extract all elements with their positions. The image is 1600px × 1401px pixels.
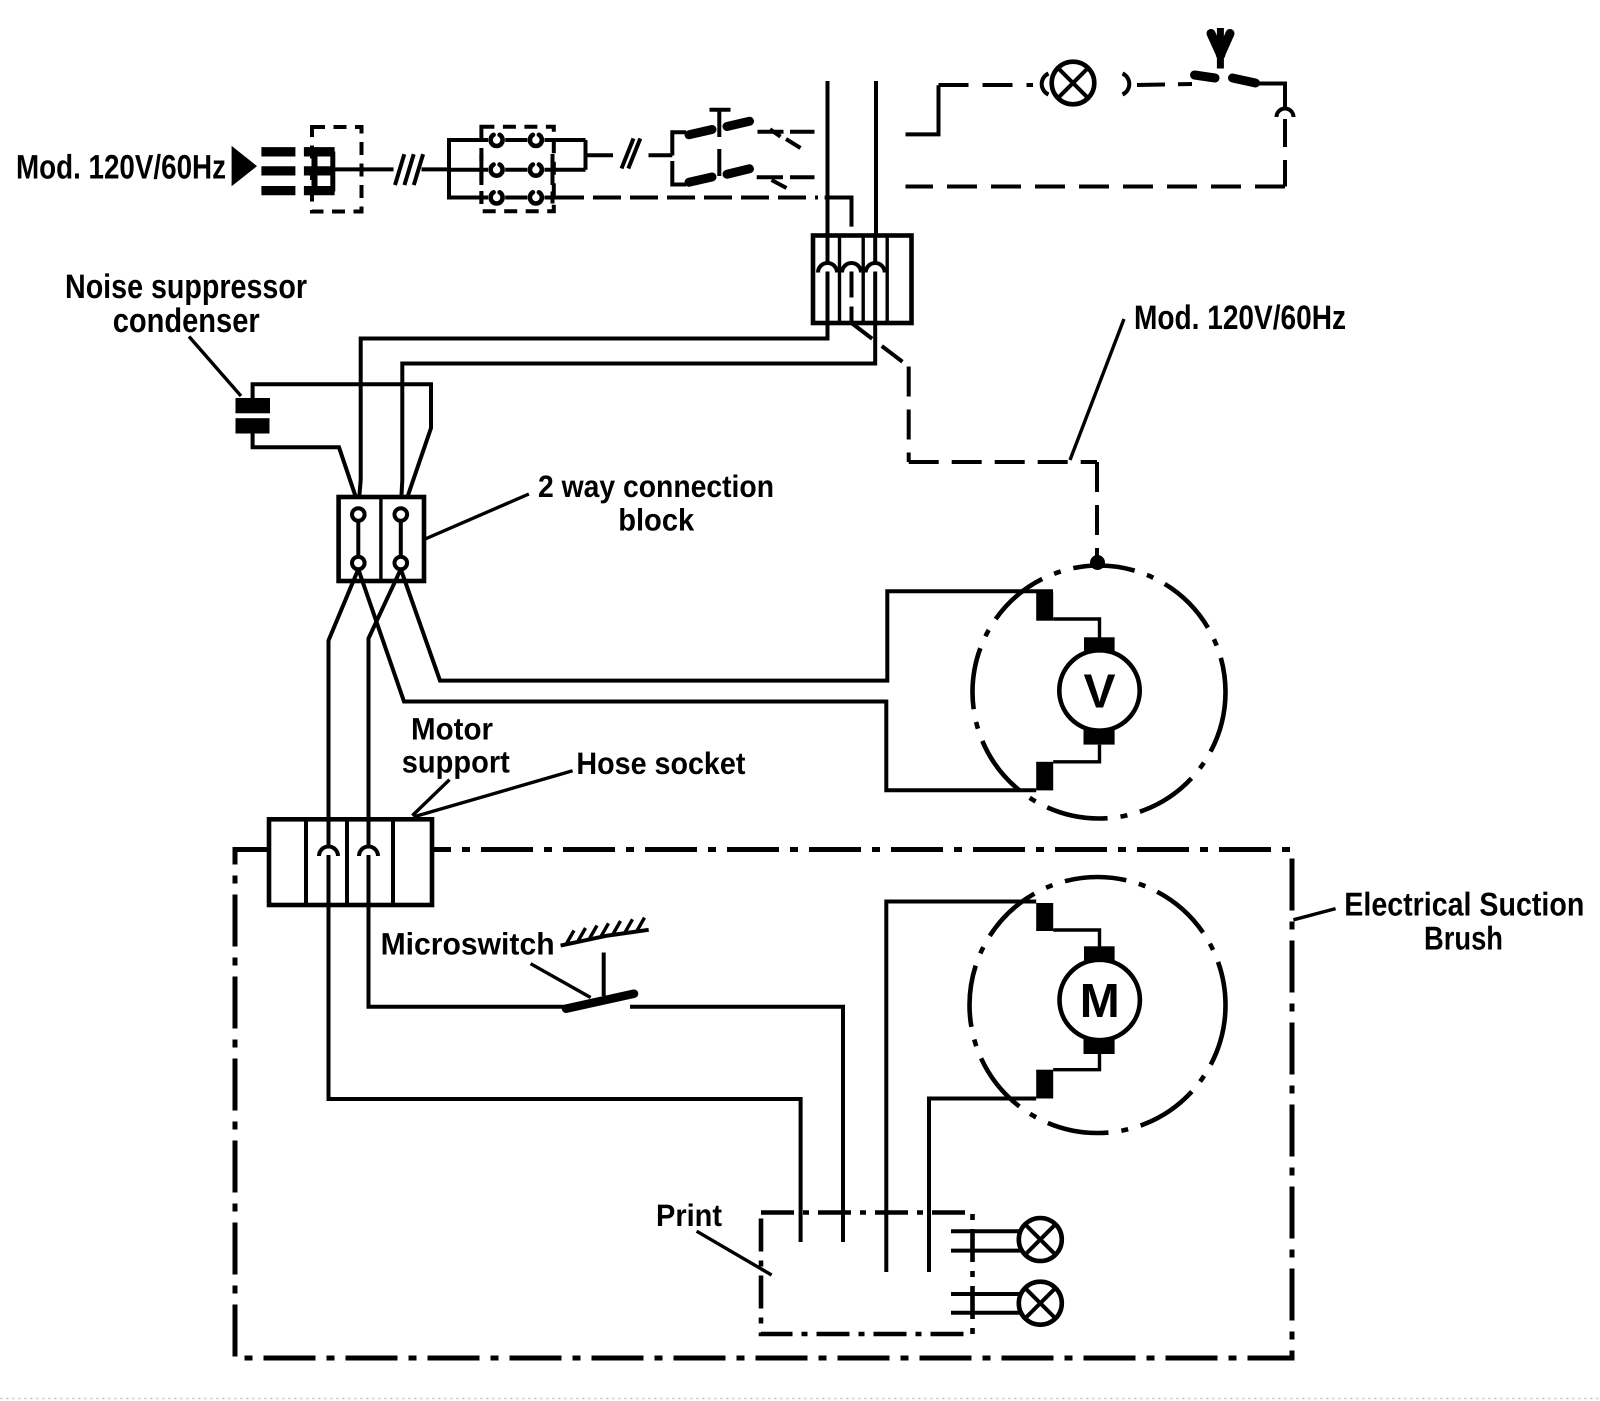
connector contact pair row 1 — [470, 135, 586, 146]
push switch S2 blade — [1195, 75, 1256, 83]
leader line hose socket — [414, 771, 573, 817]
lamp loop dashed wire to switch — [1137, 84, 1192, 85]
leader line for Mod label — [1070, 319, 1124, 460]
dashed return wire right side — [906, 119, 1286, 187]
lamp loop left terminal — [906, 85, 939, 134]
svg-text:Print: Print — [656, 1198, 722, 1233]
mains plug P1 prongs — [261, 152, 295, 191]
lamp holder contact right — [1123, 74, 1130, 95]
cable marks // — [622, 139, 641, 169]
M motor upper brush — [1084, 946, 1115, 961]
M motor upper brush link — [1053, 930, 1099, 947]
inlet pin 1 — [818, 236, 837, 324]
leader line connection block — [424, 494, 529, 540]
wire TB1 right-bottom to hose socket pin B — [369, 569, 401, 847]
switch S1 pole 1 blade — [689, 121, 750, 135]
leader line condenser — [189, 337, 241, 397]
appliance socket J1 contacts — [304, 152, 335, 192]
vacuum motor V armature — [1059, 650, 1139, 730]
pilot lamp LP1 — [1052, 62, 1095, 105]
lamp holder contact left — [1042, 74, 1049, 95]
svg-text:Mod. 120V/60Hz: Mod. 120V/60Hz — [16, 149, 226, 187]
wire S2 to hose coupling — [1258, 84, 1285, 108]
connector contact pair row 2 — [481, 154, 585, 185]
switch S1 actuator link — [710, 110, 731, 179]
print circuit board outline (dash-dot) — [761, 1213, 973, 1335]
TB1 terminal circles — [352, 508, 407, 569]
microswitch MS1 frame with hatching — [561, 918, 649, 946]
inlet pin 3 — [866, 236, 885, 324]
switch S1 pole 1 fixed contacts — [758, 129, 815, 148]
wire C1 bottom lead to terminal block — [253, 434, 359, 507]
microswitch MS1 blade — [566, 994, 634, 1009]
leader line suction brush — [1293, 909, 1335, 920]
V motor upper brush link — [1053, 619, 1099, 638]
hose socket block — [269, 819, 432, 905]
svg-text:block: block — [618, 503, 695, 538]
wire TB1 left-bottom to hose socket pin A — [329, 569, 359, 847]
wire M motor upper brush to print board — [886, 902, 1036, 1273]
leader line print — [697, 1231, 772, 1275]
M motor lower brush — [1084, 1039, 1115, 1055]
M motor lower commutator contact — [1036, 1070, 1053, 1099]
wire TB1 right-bottom to V motor upper brush — [401, 569, 1053, 680]
leader line motor support — [412, 780, 449, 816]
wire microswitch to print board — [630, 1007, 843, 1242]
main switch S1 input bridge — [672, 132, 686, 184]
brush motor M armature — [1060, 960, 1140, 1040]
noise suppressor condenser C1 plates — [236, 398, 271, 434]
push switch S2 arrow actuator — [1211, 28, 1230, 69]
electrical suction brush enclosure (dash-dot box) — [235, 850, 1292, 1359]
wire hose pin A to print board — [329, 905, 801, 1242]
wire from socket to cable — [335, 167, 394, 171]
lamp loop dashed wire top — [939, 83, 1034, 87]
wire TB1 left-bottom to V motor lower brush — [358, 569, 1036, 790]
wire inlet pin1 to terminal block — [358, 323, 827, 508]
page margin rule (faint) — [0, 1398, 1600, 1400]
headlamp lamp 1 — [1019, 1218, 1062, 1261]
svg-text:Hose socket: Hose socket — [576, 746, 745, 781]
hose socket pin B — [359, 819, 378, 905]
svg-text:V: V — [1083, 666, 1115, 719]
headlamp lamp 2 — [1019, 1282, 1062, 1325]
svg-text:2 way connection: 2 way connection — [538, 469, 774, 504]
headlamp lamp 2 leads — [951, 1294, 1022, 1313]
switch S1 pole 2 fixed contacts — [757, 177, 815, 188]
svg-text:support: support — [402, 745, 510, 780]
V motor lower commutator contact — [1036, 762, 1053, 791]
wire M motor lower brush to print board — [929, 1099, 1036, 1273]
svg-text:condenser: condenser — [113, 302, 260, 340]
wire cable to connector block — [422, 167, 450, 171]
svg-text:Motor: Motor — [411, 712, 493, 747]
wire L2 down to inlet block — [874, 81, 878, 236]
V motor upper commutator contact — [1036, 593, 1053, 621]
V motor stator circle (dashed) — [973, 566, 1226, 819]
connector housing outline (dashed) — [312, 127, 362, 212]
M motor lower brush link — [1053, 1054, 1099, 1070]
wire hose pin B to microswitch — [369, 905, 567, 1007]
M motor upper commutator contact — [1036, 903, 1053, 931]
inlet pin 2 (dashed circuit) — [842, 263, 861, 323]
svg-text:Noise suppressor: Noise suppressor — [65, 268, 307, 306]
3-way cable connector housing (dashed) — [481, 127, 553, 212]
dashed return wire from connector row 3 — [556, 198, 852, 264]
wire L1 down to inlet block — [826, 81, 830, 236]
V motor lower brush link — [1053, 745, 1099, 762]
2 way connection block TB1 — [339, 497, 424, 581]
leader line microswitch — [531, 964, 591, 998]
svg-text:Electrical Suction: Electrical Suction — [1344, 886, 1584, 923]
svg-text:Microswitch: Microswitch — [381, 927, 555, 962]
M motor stator circle (dashed) — [970, 877, 1226, 1133]
svg-text:M: M — [1080, 975, 1120, 1028]
connector right bridge — [586, 140, 614, 170]
hose coupling contact — [1277, 109, 1294, 118]
connector contact pair row 3 — [470, 192, 556, 204]
V motor lower brush — [1084, 729, 1115, 745]
dashed feed wire to suction brush (Mod. circuit) — [852, 323, 1098, 557]
junction dot on V motor circle — [1090, 555, 1105, 570]
hose socket pin A — [319, 819, 338, 905]
cable marks /// — [395, 154, 423, 185]
svg-text:Brush: Brush — [1424, 920, 1503, 957]
plug arrow marker — [232, 146, 257, 186]
V motor upper brush — [1084, 637, 1115, 652]
microswitch MS1 actuator — [602, 953, 606, 997]
3-way cable connector left bridge — [449, 140, 488, 198]
wire inlet pin3 to terminal block — [401, 323, 875, 508]
switch S1 pole 2 blade — [689, 169, 750, 183]
wire C1 top lead to terminal block — [253, 384, 431, 507]
svg-text:Mod. 120V/60Hz: Mod. 120V/60Hz — [1134, 299, 1346, 337]
headlamp lamp 1 leads — [951, 1231, 1022, 1250]
appliance inlet block (top) — [813, 236, 912, 324]
wire to main switch — [649, 153, 673, 157]
